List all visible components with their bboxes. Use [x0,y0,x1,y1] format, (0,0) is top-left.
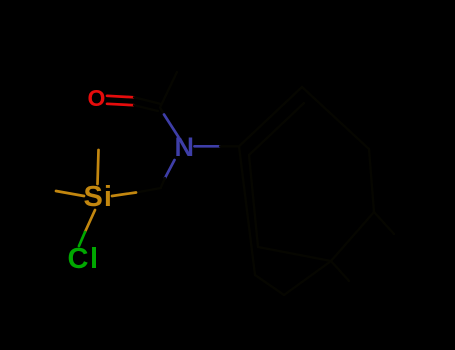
ring methyl stub on V4 (hidden dark) [374,212,394,234]
wire N to CH2 : carbon half (hidden dark) [161,178,165,187]
wire N to CH2 : nitrogen half (blue) [165,160,175,178]
node Si silicon label [84,181,113,214]
wire N to ring : carbon half (hidden dark) [220,145,239,147]
wire Si to Cl : silicon half (gold) [85,210,95,232]
ring methyl stub on B2 (hidden dark) [331,261,349,281]
wire CH2 to Si : carbon half (hidden dark) [136,188,161,193]
wire acetyl methyl stub (hidden dark) [160,72,177,108]
wire N to ring : nitrogen half (blue) [195,145,221,148]
ring cage inner edge P3-B2 (hidden dark) [258,247,331,261]
wire CH2 to Si : silicon half (gold) [112,193,136,197]
ring cage inner edge P1-P2 (hidden dark) [249,103,304,155]
wire carbonyl C to N : nitrogen half (blue) [164,115,179,138]
ring cage inner edge P1-P3 (hidden dark) [249,155,258,247]
wire Si vertical methyl (gold) [98,150,99,184]
wire carbonyl C to N : carbon half (hidden dark) [160,108,164,115]
wire C=O double bond carbon half (hidden dark) [134,97,160,111]
node O oxygen label [88,85,106,112]
wire Si to Cl : chlorine half (green) [79,232,85,246]
wire Si left methyl (gold) [56,191,84,196]
ring adamantane cage outline (hidden dark) [239,87,374,295]
node Cl chlorine label [68,243,100,276]
node N nitrogen label [175,132,195,163]
capacitor C=O double bond red half [107,96,134,105]
